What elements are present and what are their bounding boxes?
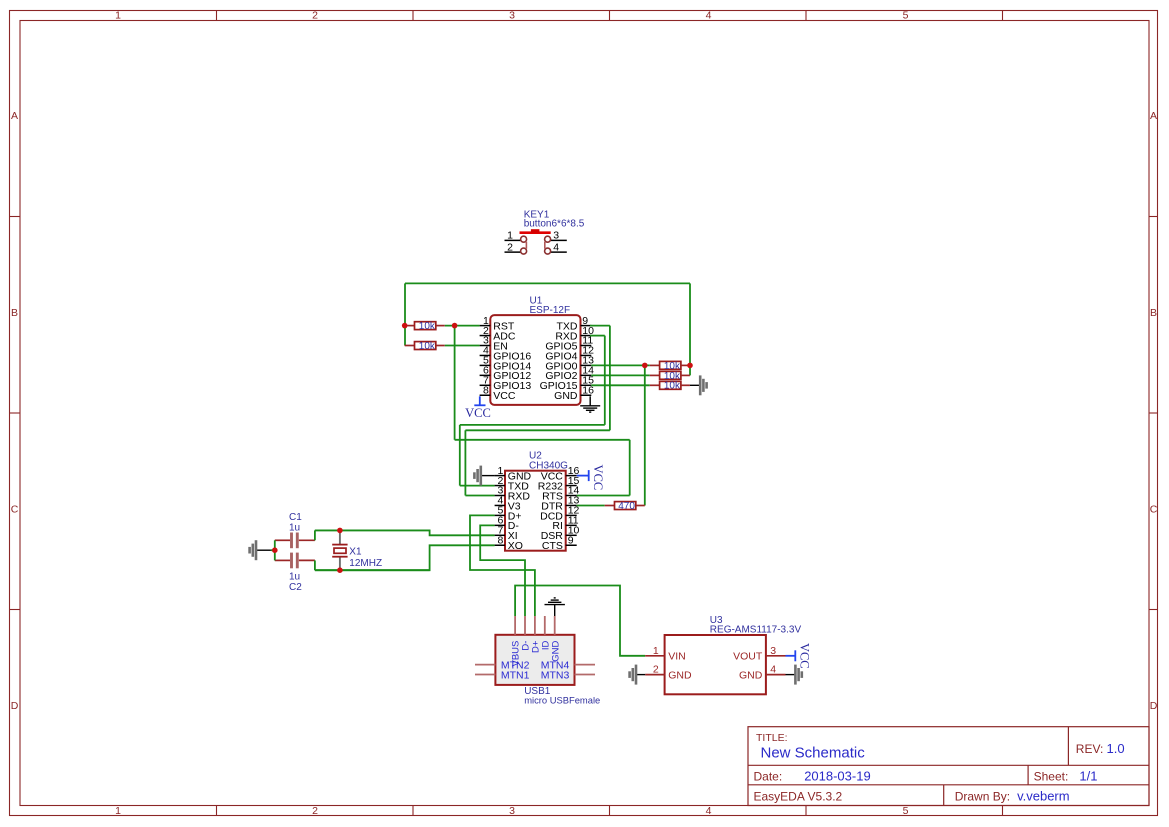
svg-text:1.0: 1.0 [1107, 741, 1125, 756]
resistor R-RST 10k [405, 321, 445, 332]
wire XI from crystal [315, 530, 495, 535]
svg-text:CTS: CTS [542, 540, 563, 552]
svg-text:GND: GND [739, 670, 763, 682]
USB1 pin D- [521, 616, 532, 651]
U2 pin 6 D- [495, 515, 520, 533]
U3 pin 4 GND [739, 664, 786, 682]
junction at GPIO0 pull rail [687, 363, 693, 369]
svg-text:VCC: VCC [797, 643, 811, 669]
U2 pin 15 R232 [538, 475, 580, 493]
U1 pin 3 EN [480, 335, 508, 353]
junction at RST pin [452, 323, 458, 329]
USB1 pin ID [540, 616, 551, 650]
U2 pin 5 D+ [495, 505, 522, 523]
U1 pin 4 GPIO16 [480, 345, 532, 363]
wire U1 TXD to corner [590, 325, 610, 327]
svg-text:A: A [1150, 110, 1157, 122]
svg-text:New Schematic: New Schematic [761, 745, 866, 762]
U1 pin 13 GPIO0 [545, 355, 594, 373]
wire top rail net [405, 282, 690, 284]
IC U1 body [490, 315, 580, 405]
U1 pin 6 GPIO12 [480, 365, 532, 383]
U1 pin 12 GPIO4 [545, 345, 594, 363]
title block frame [748, 727, 1149, 806]
svg-text:XO: XO [508, 540, 523, 552]
resistor R-GPIO0 10k [650, 361, 690, 372]
wire C2 right down [314, 560, 316, 570]
svg-text:1: 1 [115, 10, 121, 22]
U3 pin 3 VOUT [733, 645, 785, 663]
U2 pin 16 VCC [541, 465, 580, 483]
svg-text:4: 4 [706, 10, 712, 22]
svg-text:C: C [11, 504, 19, 516]
capacitor C2 [275, 553, 315, 569]
wire D- net [480, 525, 525, 616]
svg-text:1: 1 [115, 805, 121, 817]
U2 pin 13 DTR [541, 495, 579, 513]
U2 pin 14 RTS [542, 485, 579, 503]
svg-text:5: 5 [903, 805, 909, 817]
wire right rail drop [689, 283, 691, 375]
svg-text:GND: GND [668, 670, 692, 682]
svg-text:C1: C1 [289, 512, 302, 523]
junction at C1 C2 ground [272, 547, 278, 553]
wire DTR net vertical [644, 365, 646, 505]
gnd flag at U3 pin 2 [630, 665, 646, 685]
USB1 pin MTN3 [541, 669, 595, 681]
U2 pin 11 RI [552, 515, 578, 533]
junction at crystal top [337, 528, 343, 534]
svg-text:10k: 10k [664, 381, 681, 392]
svg-text:4: 4 [706, 805, 712, 817]
U1 pin 1 RST [480, 315, 515, 333]
junction at GPIO0 resistor [642, 363, 648, 369]
junction at RST resistor left [402, 323, 408, 329]
wire EN resistor to U1 pin3 [445, 345, 480, 347]
svg-text:Date:: Date: [754, 769, 783, 783]
svg-text:3: 3 [770, 645, 776, 657]
U2 pin 7 XI [495, 525, 518, 543]
U1 pin 5 GPIO14 [480, 355, 532, 373]
resistor R-GPIO2 10k [650, 371, 690, 382]
U2 pin 9 CTS [542, 535, 577, 553]
svg-text:10k: 10k [419, 341, 436, 352]
svg-text:X1: X1 [349, 546, 362, 557]
wire RXD horizontal [460, 424, 605, 426]
svg-text:12MHZ: 12MHZ [349, 558, 382, 569]
wire crystal bottom rail [315, 569, 430, 571]
svg-text:v.veberm: v.veberm [1017, 788, 1070, 803]
KEY1 pin 4 [551, 241, 567, 253]
USB1 pin GND [550, 616, 561, 662]
wire XO from crystal [315, 545, 495, 570]
U1 pin 9 TXD [557, 315, 592, 333]
wire D+ net [470, 515, 535, 616]
junction at crystal bottom [337, 567, 343, 573]
U1 pin 16 GND [554, 384, 594, 402]
svg-text:GND: GND [554, 390, 578, 402]
svg-text:1: 1 [507, 230, 513, 242]
U1 pin 2 ADC [480, 325, 516, 343]
svg-text:2: 2 [653, 664, 659, 676]
U1 pin 8 VCC [480, 384, 516, 402]
wire RXD vertical [604, 336, 606, 425]
svg-text:micro USBFemale: micro USBFemale [524, 695, 600, 706]
svg-text:3: 3 [553, 230, 559, 242]
wire RST resistor to U1 pin1 [445, 325, 480, 327]
USB1 pin VBUS [511, 616, 522, 666]
svg-text:C2: C2 [289, 582, 302, 593]
svg-text:3: 3 [509, 10, 515, 22]
svg-text:MTN3: MTN3 [541, 669, 570, 681]
svg-text:8: 8 [483, 384, 489, 396]
KEY1 pin 3 [551, 230, 567, 242]
svg-text:D: D [11, 700, 19, 712]
svg-text:VCC: VCC [465, 406, 491, 420]
svg-text:9: 9 [568, 535, 574, 547]
wire TXD down to U2 RXD [464, 430, 466, 495]
wire C1 right up [314, 530, 316, 540]
power flag VCC at U3 pin 3 [786, 643, 812, 669]
frame row letters [11, 110, 1158, 712]
wire TXD horizontal [465, 429, 610, 431]
wire RTS net vertical [629, 440, 631, 496]
svg-text:10k: 10k [419, 321, 436, 332]
svg-text:VCC: VCC [591, 465, 605, 491]
wire into U2 pin 3 [465, 495, 494, 497]
U2 pin 4 V3 [495, 495, 521, 513]
wire GPIO2 to resistor [591, 374, 650, 376]
KEY1 actuator bar [520, 229, 551, 233]
U3 pin 1 VIN [645, 645, 686, 663]
svg-text:1u: 1u [289, 523, 300, 534]
U2 pin 10 DSR [541, 525, 580, 543]
resistor R-DTR 470 [605, 501, 645, 512]
svg-text:C: C [1150, 504, 1158, 516]
USB1 pin MTN1 [475, 669, 530, 681]
KEY1 pin 1 [505, 230, 521, 242]
svg-text:MTN1: MTN1 [501, 669, 530, 681]
wire GPIO0 to resistor [591, 364, 650, 366]
U2 pin 12 DCD [540, 505, 579, 523]
wire TXD vertical [609, 326, 611, 431]
wire crystal top rail [315, 529, 430, 531]
svg-text:1/1: 1/1 [1079, 768, 1097, 783]
svg-text:1: 1 [653, 645, 659, 657]
wire left rail drop [404, 283, 406, 345]
svg-text:2018-03-19: 2018-03-19 [804, 768, 871, 783]
svg-text:4: 4 [553, 241, 559, 253]
svg-text:470: 470 [618, 501, 635, 512]
svg-text:button6*6*8.5: button6*6*8.5 [524, 219, 585, 230]
frame column numbers [115, 10, 909, 818]
svg-text:5: 5 [903, 10, 909, 22]
resistor R-EN 10k [405, 341, 445, 352]
svg-text:B: B [1150, 307, 1157, 319]
wire DTR to resistor [577, 505, 605, 507]
svg-text:REG-AMS1117-3.3V: REG-AMS1117-3.3V [710, 625, 802, 636]
svg-text:TITLE:: TITLE: [756, 732, 788, 744]
wire RST net vertical [454, 326, 456, 440]
connector USB1 body [495, 635, 574, 685]
wire RXD down to U2 TXD [459, 425, 461, 486]
svg-text:B: B [11, 307, 18, 319]
svg-text:Sheet:: Sheet: [1034, 769, 1069, 783]
earth ground above USB GND pin [545, 598, 565, 616]
IC U2 body [505, 471, 566, 551]
U2 pin 1 GND [495, 465, 532, 483]
gnd flag at U3 pin 4 [786, 665, 802, 685]
wire GPIO15 to resistor [591, 384, 650, 386]
USB1 pin MTN2 [475, 659, 530, 671]
gnd flag left of C1 C2 [250, 540, 271, 560]
svg-text:Drawn By:: Drawn By: [955, 789, 1010, 803]
wire U1 RXD to corner [590, 335, 605, 337]
wire VBUS net [515, 586, 645, 656]
U1 pin 14 GPIO2 [545, 365, 594, 383]
U2 pin 2 TXD [495, 475, 530, 493]
U3 pin 2 GND [645, 664, 692, 682]
USB1 pin MTN4 [541, 659, 595, 671]
U1 pin 7 GPIO13 [480, 375, 532, 393]
svg-text:2: 2 [312, 10, 318, 22]
U2 pin 8 XO [495, 535, 523, 553]
KEY1 pin 2 [505, 241, 521, 253]
resistor R-GPIO15 10k [650, 381, 690, 392]
power flag VCC at U1 pin 8 [465, 396, 491, 420]
KEY1 contacts [521, 236, 551, 254]
U1 pin 10 RXD [555, 325, 594, 343]
capacitor C1 [275, 533, 315, 549]
gnd flag at U2 pin 1 [474, 466, 494, 486]
earth ground at U1 pin 16 [580, 396, 600, 412]
wire GPIO15 resistor to ground [690, 384, 700, 386]
svg-text:VOUT: VOUT [733, 651, 763, 663]
svg-text:2: 2 [507, 241, 513, 253]
svg-text:VCC: VCC [493, 390, 516, 402]
crystal X1 [332, 530, 347, 570]
wire RST net horizontal to RTS [455, 439, 630, 441]
wire to left ground [271, 549, 275, 551]
wire C1 C2 left vertical [274, 540, 276, 560]
svg-text:ESP-12F: ESP-12F [530, 305, 571, 316]
power flag VCC at U2 pin 16 [577, 465, 605, 491]
wire into U2 pin 2 [460, 485, 495, 487]
svg-text:A: A [11, 110, 18, 122]
svg-text:REV:: REV: [1076, 742, 1104, 756]
svg-text:3: 3 [509, 805, 515, 817]
gnd flag right of GPIO15 resistor [700, 375, 706, 395]
svg-text:EasyEDA V5.3.2: EasyEDA V5.3.2 [754, 789, 843, 803]
U1 pin 15 GPIO15 [540, 375, 595, 393]
svg-text:VIN: VIN [668, 651, 686, 663]
U1 pin 11 GPIO5 [545, 335, 593, 353]
svg-text:2: 2 [312, 805, 318, 817]
USB1 pin D+ [531, 616, 542, 653]
IC U3 body [665, 635, 766, 694]
svg-text:4: 4 [770, 664, 776, 676]
svg-text:8: 8 [497, 535, 503, 547]
wire RTS to U2 pin 14 [577, 495, 630, 497]
svg-text:D: D [1150, 700, 1158, 712]
U2 pin 3 RXD [495, 485, 531, 503]
